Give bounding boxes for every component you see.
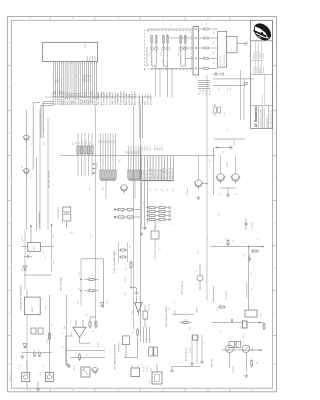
svg-text:RN4: RN4 <box>120 159 122 162</box>
svg-text:C5: C5 <box>142 364 144 366</box>
svg-text:R53: R53 <box>214 41 216 44</box>
svg-text:104: 104 <box>161 189 163 191</box>
svg-text:R10 10K: R10 10K <box>98 343 100 348</box>
svg-text:FUELCELL_SIG: FUELCELL_SIG <box>115 92 117 106</box>
svg-text:MOT_RB: MOT_RB <box>90 75 92 82</box>
svg-text:D5: D5 <box>98 305 100 307</box>
svg-text:C10: C10 <box>212 111 214 114</box>
svg-text:SW11: SW11 <box>136 150 138 154</box>
svg-text:SPD_3: SPD_3 <box>162 145 164 150</box>
svg-text:ENC_I: ENC_I <box>147 145 149 150</box>
svg-text:VEL / ACC SELECT: VEL / ACC SELECT <box>48 169 51 188</box>
svg-text:C3: C3 <box>93 330 95 332</box>
svg-text:R23: R23 <box>190 327 192 330</box>
svg-text:R31: R31 <box>76 75 78 78</box>
svg-text:D: D <box>72 17 75 19</box>
svg-text:SW0: SW0 <box>98 140 100 143</box>
svg-text:D2: D2 <box>62 332 64 334</box>
svg-text:Released: Released <box>263 66 265 73</box>
svg-text:SPD_0: SPD_0 <box>155 145 157 150</box>
svg-text:R44: R44 <box>217 308 219 311</box>
svg-text:4.7K: 4.7K <box>145 223 148 225</box>
svg-text:J2: J2 <box>51 93 53 95</box>
svg-text:PWM_LEFT_HI: PWM_LEFT_HI <box>166 168 168 179</box>
svg-text:OPB3: OPB3 <box>181 59 183 63</box>
svg-text:C14: C14 <box>227 129 229 132</box>
svg-text:R24 10K: R24 10K <box>190 348 192 353</box>
svg-text:10K: 10K <box>126 150 128 153</box>
svg-text:SW1: SW1 <box>101 140 103 143</box>
svg-text:C9 10u: C9 10u <box>22 235 24 240</box>
svg-text:VR1 5K: VR1 5K <box>74 366 76 371</box>
svg-text:LM393: LM393 <box>32 307 34 312</box>
svg-text:POT_WIPER_IN: POT_WIPER_IN <box>107 91 109 105</box>
svg-text:SPD_LIM_SW2: SPD_LIM_SW2 <box>152 169 154 180</box>
svg-text:C2: C2 <box>71 321 73 323</box>
svg-text:R32: R32 <box>83 141 85 144</box>
svg-text:GND: GND <box>53 235 55 238</box>
svg-text:R30: R30 <box>76 141 78 144</box>
svg-text:PL1: PL1 <box>20 364 22 367</box>
svg-text:D7: D7 <box>220 303 222 305</box>
svg-text:10K: 10K <box>156 189 158 191</box>
svg-text:R49: R49 <box>224 112 226 115</box>
svg-text:SEN: SEN <box>64 326 66 329</box>
svg-text:10K: 10K <box>167 189 169 191</box>
svg-text:RN3 10K: RN3 10K <box>97 162 99 168</box>
svg-text:C7 104: C7 104 <box>252 225 254 230</box>
svg-text:R28: R28 <box>73 142 75 145</box>
svg-text:R15: R15 <box>125 292 127 295</box>
svg-text:Q6: Q6 <box>236 193 238 195</box>
svg-text:C4 104: C4 104 <box>125 277 127 282</box>
svg-text:R56 220: R56 220 <box>209 90 211 95</box>
svg-text:R54: R54 <box>214 31 216 34</box>
svg-text:HORN_DRIVE: HORN_DRIVE <box>129 93 131 105</box>
svg-text:R29: R29 <box>44 142 46 145</box>
svg-text:10K: 10K <box>129 211 131 213</box>
svg-text:SPD_SW2: SPD_SW2 <box>150 97 152 105</box>
svg-text:R45: R45 <box>233 239 235 242</box>
svg-text:SW2: SW2 <box>103 140 105 143</box>
svg-text:Q5: Q5 <box>220 193 222 195</box>
svg-text:R7: R7 <box>63 346 65 348</box>
svg-text:INHIBIT SW: INHIBIT SW <box>212 358 214 367</box>
svg-text:C11: C11 <box>244 254 246 257</box>
svg-text:RN1: RN1 <box>90 187 92 190</box>
svg-text:SOLENOID RETURN: SOLENOID RETURN <box>247 282 249 298</box>
svg-text:SW3: SW3 <box>106 140 108 143</box>
svg-text:OPTO3: OPTO3 <box>178 51 180 56</box>
svg-text:ENC_B: ENC_B <box>145 145 147 150</box>
svg-text:R8 10K: R8 10K <box>71 331 73 336</box>
svg-text:8-4.5x11.ssf: 8-4.5x11.ssf <box>262 94 264 103</box>
svg-text:TL084 BUFFER: TL084 BUFFER <box>58 206 60 219</box>
svg-text:R42: R42 <box>261 313 263 316</box>
svg-text:SPD_SW1: SPD_SW1 <box>148 97 150 105</box>
svg-text:ENC_I: ENC_I <box>145 99 147 105</box>
svg-text:R48 10K: R48 10K <box>234 140 236 145</box>
svg-text:10K: 10K <box>121 219 123 221</box>
svg-text:ENC_IDX_IN: ENC_IDX_IN <box>146 171 148 180</box>
svg-text:Q7: Q7 <box>196 270 198 272</box>
svg-text:FG_RTN: FG_RTN <box>147 366 149 372</box>
svg-text:R12: R12 <box>79 287 81 290</box>
svg-text:POT_HIGH_REF: POT_HIGH_REF <box>104 91 106 105</box>
svg-text:5V: 5V <box>196 76 198 78</box>
svg-text:C6: C6 <box>174 301 176 303</box>
svg-text:R52: R52 <box>214 51 216 54</box>
svg-text:D: D <box>29 389 32 391</box>
svg-text:R43: R43 <box>251 272 253 275</box>
svg-text:SW5: SW5 <box>111 140 113 143</box>
svg-text:C17: C17 <box>90 236 93 238</box>
svg-text:SPD_2: SPD_2 <box>160 145 162 150</box>
svg-text:C: C <box>162 17 165 19</box>
svg-text:C10: C10 <box>219 87 221 90</box>
svg-text:BATT_SNS_NEG: BATT_SNS_NEG <box>134 91 137 105</box>
svg-text:10K: 10K <box>257 362 259 365</box>
svg-text:C: C <box>162 389 165 391</box>
svg-text:C8: C8 <box>208 238 210 240</box>
svg-text:U2B: U2B <box>132 311 134 314</box>
svg-text:LED1: LED1 <box>40 372 42 376</box>
svg-text:R14 1K: R14 1K <box>107 299 109 304</box>
svg-text:Z1 8V2: Z1 8V2 <box>21 267 23 272</box>
svg-text:SW10: SW10 <box>134 150 136 154</box>
svg-text:OPTO2: OPTO2 <box>161 51 163 56</box>
svg-text:MOT_LB: MOT_LB <box>86 75 88 81</box>
svg-text:0.1: 0.1 <box>225 238 227 240</box>
svg-text:AT Roadshow: AT Roadshow <box>254 106 258 128</box>
svg-text:C7: C7 <box>204 342 206 344</box>
svg-text:221: 221 <box>173 189 175 191</box>
svg-text:FUEL GAUGE DRIVER: FUEL GAUGE DRIVER <box>165 306 168 327</box>
svg-text:REV 1.2: REV 1.2 <box>10 374 12 381</box>
svg-text:C: C <box>117 17 120 19</box>
svg-text:SOL DRV: SOL DRV <box>233 365 235 373</box>
svg-text:Solenoid Activator: Solenoid Activator <box>212 286 215 302</box>
svg-text:1K: 1K <box>89 287 91 289</box>
svg-text:D: D <box>29 17 32 19</box>
svg-text:RP1 10K SIP: RP1 10K SIP <box>220 56 222 65</box>
svg-text:R2: R2 <box>43 251 45 253</box>
svg-text:R3 47K: R3 47K <box>46 305 48 310</box>
svg-text:78L08: 78L08 <box>34 246 36 250</box>
svg-text:Q9: Q9 <box>221 330 223 332</box>
svg-text:R17: R17 <box>133 331 135 334</box>
svg-text:R20: R20 <box>130 245 132 248</box>
svg-text:SOLENOID_DRV: SOLENOID_DRV <box>121 90 123 105</box>
svg-text:C12: C12 <box>200 89 202 92</box>
svg-text:R26: R26 <box>156 225 158 228</box>
svg-text:SW9: SW9 <box>131 151 133 154</box>
svg-text:FG_OUT: FG_OUT <box>144 366 146 372</box>
svg-text:LS1: LS1 <box>128 373 130 376</box>
svg-text:ENC_CHB_IN: ENC_CHB_IN <box>143 170 145 180</box>
svg-text:BT1: BT1 <box>150 380 152 383</box>
svg-text:104: 104 <box>150 189 152 191</box>
svg-text:OPB1: OPB1 <box>152 59 154 63</box>
svg-text:BACKLITE_EN: BACKLITE_EN <box>125 92 128 105</box>
svg-text:R22: R22 <box>169 307 171 310</box>
svg-text:U7: U7 <box>232 49 234 51</box>
svg-text:D9: D9 <box>258 238 260 240</box>
svg-text:8V REFERENCE: 8V REFERENCE <box>39 211 41 228</box>
svg-text:FUEL CELL AMPLIFIER: FUEL CELL AMPLIFIER <box>113 250 116 273</box>
svg-text:Optical Encoder Assy: Optical Encoder Assy <box>146 46 149 67</box>
svg-text:R19: R19 <box>116 252 118 255</box>
svg-text:05-04-01: 05-04-01 <box>263 53 265 59</box>
svg-text:C18 104: C18 104 <box>202 90 204 95</box>
svg-text:R9: R9 <box>87 354 89 356</box>
svg-text:LOW BATTERY INDICATOR: LOW BATTERY INDICATOR <box>20 285 23 311</box>
svg-text:Solenoid: Solenoid <box>187 188 189 195</box>
svg-text:SW8: SW8 <box>129 151 131 154</box>
svg-text:R16: R16 <box>126 267 128 270</box>
svg-text:RN2: RN2 <box>103 187 105 190</box>
svg-text:R51: R51 <box>214 61 216 64</box>
svg-text:C8: C8 <box>45 257 47 259</box>
svg-text:POT AND REF AMPLIFIER: POT AND REF AMPLIFIER <box>113 343 116 369</box>
svg-text:R13: R13 <box>79 272 81 275</box>
svg-text:U4B: U4B <box>219 213 221 216</box>
svg-text:SOLENOID_RTN: SOLENOID_RTN <box>123 91 125 105</box>
svg-text:C13: C13 <box>204 89 206 92</box>
svg-text:Back Lighting: Back Lighting <box>180 281 183 294</box>
svg-text:HV CUTOFF: HV CUTOFF <box>226 290 228 300</box>
svg-text:PL2: PL2 <box>43 364 45 367</box>
svg-text:K1: K1 <box>146 338 148 340</box>
svg-text:R33: R33 <box>86 141 88 144</box>
svg-text:POT_LOW_REF: POT_LOW_REF <box>109 91 111 105</box>
svg-text:10K: 10K <box>121 211 123 213</box>
svg-text:R30: R30 <box>22 165 24 168</box>
svg-text:REF VOLTAGE: REF VOLTAGE <box>60 277 63 291</box>
svg-text:R5 1K: R5 1K <box>47 339 49 343</box>
svg-text:SPD_LIM_SW1: SPD_LIM_SW1 <box>149 169 151 180</box>
svg-text:C16: C16 <box>61 79 63 82</box>
svg-text:C11: C11 <box>221 111 223 114</box>
svg-text:R11: R11 <box>87 313 89 316</box>
svg-text:LM358: LM358 <box>174 311 176 316</box>
svg-text:Q1: Q1 <box>30 143 32 145</box>
svg-text:SPD_1: SPD_1 <box>157 145 159 150</box>
svg-text:R4: R4 <box>51 324 53 326</box>
svg-text:R31: R31 <box>79 141 81 144</box>
svg-text:OPTO1: OPTO1 <box>149 51 151 56</box>
svg-text:Q1: Q1 <box>32 135 34 137</box>
svg-text:R34: R34 <box>90 141 92 144</box>
svg-text:IRF540: IRF540 <box>227 162 229 167</box>
svg-text:Q3: Q3 <box>120 342 122 344</box>
svg-text:Q8: Q8 <box>223 151 225 153</box>
svg-text:1K: 1K <box>89 276 91 278</box>
svg-text:Q2: Q2 <box>30 176 32 178</box>
svg-text:HORN DRV: HORN DRV <box>118 344 120 352</box>
svg-text:R25: R25 <box>144 201 146 204</box>
svg-text:SW6: SW6 <box>113 140 115 143</box>
svg-text:ENC_G: ENC_G <box>150 144 152 150</box>
svg-text:D8: D8 <box>252 288 254 290</box>
svg-text:OPB2: OPB2 <box>163 59 165 63</box>
svg-text:VEL_COMMAND: VEL_COMMAND <box>97 91 100 105</box>
svg-text:PWM_RIGHT_HI: PWM_RIGHT_HI <box>169 167 171 179</box>
svg-text:U4: U4 <box>171 223 173 225</box>
svg-text:R47: R47 <box>210 159 212 162</box>
svg-text:R46: R46 <box>252 222 254 225</box>
svg-text:C15: C15 <box>44 127 46 130</box>
svg-text:D: D <box>72 389 75 391</box>
svg-text:PWL: PWL <box>240 326 242 329</box>
svg-text:10K: 10K <box>129 219 131 221</box>
svg-text:ACC_COMMAND: ACC_COMMAND <box>100 90 103 105</box>
svg-text:R27: R27 <box>198 251 200 254</box>
svg-text:VREF_8V0_OUT: VREF_8V0_OUT <box>112 91 114 105</box>
svg-text:Battery Sensor: Battery Sensor <box>184 347 187 361</box>
svg-text:LOWBATT_IND: LOWBATT_IND <box>117 92 120 105</box>
svg-text:D4: D4 <box>160 248 162 250</box>
svg-text:BATT_SNS_POS: BATT_SNS_POS <box>131 91 134 106</box>
svg-text:R21 100K: R21 100K <box>149 304 151 310</box>
svg-text:100K: 100K <box>184 320 187 322</box>
svg-text:R41 1K: R41 1K <box>244 333 246 338</box>
svg-text:SW4: SW4 <box>108 140 110 143</box>
svg-text:C: C <box>117 389 120 391</box>
svg-text:+24V: +24V <box>70 232 73 234</box>
